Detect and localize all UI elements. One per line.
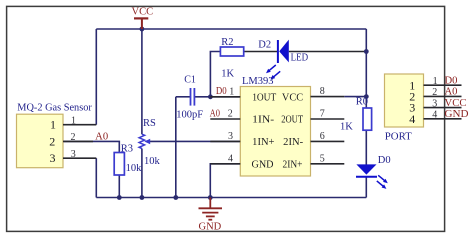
svg-text:2: 2 (432, 87, 437, 98)
op-amp pin 5 (311, 154, 345, 165)
svg-text:3: 3 (71, 149, 76, 160)
svg-text:LED: LED (291, 52, 309, 63)
node junction R2 branch on 1OUT wire (208, 94, 213, 99)
resistor R0 (340, 97, 372, 133)
svg-text:2OUT: 2OUT (281, 115, 303, 126)
LED D0 (356, 155, 391, 189)
node junction pot on ground rail (140, 195, 145, 200)
wire R2 to D2 (244, 51, 278, 53)
svg-text:10k: 10k (144, 156, 161, 167)
svg-text:VCC: VCC (132, 7, 154, 18)
svg-text:2: 2 (228, 109, 233, 120)
svg-text:1OUT: 1OUT (252, 92, 277, 103)
op-amp pin 1 (210, 86, 240, 97)
svg-text:8: 8 (320, 86, 325, 97)
svg-text:D0: D0 (378, 155, 391, 166)
wire sensor pin3 drop (95, 158, 97, 197)
svg-text:4: 4 (228, 154, 233, 165)
resistor R3 (114, 143, 142, 175)
wire D2 to right vertical (289, 51, 367, 53)
svg-text:1K: 1K (221, 69, 234, 80)
svg-text:PORT: PORT (385, 132, 413, 143)
svg-text:4: 4 (409, 112, 415, 126)
svg-text:LM393: LM393 (242, 76, 274, 87)
svg-text:1K: 1K (340, 122, 353, 133)
connector pin 1 (424, 76, 462, 87)
wire VCC/pot riser (141, 29, 143, 134)
node junction pin8/R0 (364, 94, 369, 99)
svg-text:3: 3 (50, 151, 56, 165)
svg-text:GND: GND (445, 109, 469, 120)
svg-text:D2: D2 (258, 39, 271, 50)
sensor pin 3 (63, 149, 96, 160)
svg-text:6: 6 (320, 131, 325, 142)
wire LED D0 to bottom rail (365, 177, 367, 198)
wire pot bottom lead (141, 149, 143, 198)
svg-text:D0: D0 (445, 76, 458, 87)
svg-text:2IN+: 2IN+ (283, 160, 303, 171)
svg-text:A0: A0 (445, 87, 458, 98)
potentiometer RS (139, 118, 160, 167)
node junction R3 on ground rail (117, 195, 122, 200)
node junction C1 branch on ground rail (173, 195, 178, 200)
op-amp pin 6 (311, 131, 345, 142)
wire R2 branch riser (210, 52, 220, 97)
svg-text:VCC: VCC (445, 98, 467, 109)
svg-text:10k: 10k (126, 163, 143, 174)
wire C1 ground branch (175, 97, 177, 198)
svg-text:D0: D0 (216, 86, 227, 97)
svg-text:4: 4 (432, 110, 437, 121)
op-amp pin 3 (210, 131, 240, 142)
svg-text:R0: R0 (356, 97, 368, 108)
svg-text:3: 3 (228, 131, 233, 142)
wire VCC top rail (96, 28, 366, 30)
wire bottom ground rail (96, 197, 366, 199)
sensor pin 2 (63, 132, 93, 143)
svg-text:7: 7 (320, 109, 325, 120)
wire left riser to sensor pin1 (95, 29, 97, 125)
svg-text:C1: C1 (184, 75, 196, 86)
sensor pin 1 (63, 115, 96, 126)
wire C1 left lead (176, 96, 190, 98)
svg-text:2: 2 (49, 134, 55, 148)
connector PORT body (385, 74, 424, 143)
ground symbol GND (199, 198, 223, 233)
connector pin 4 (424, 110, 462, 121)
resistor R2 (220, 37, 243, 80)
node junction GND tap on ground rail (208, 195, 213, 200)
wire pot wiper to 1IN+ (149, 140, 240, 142)
svg-text:1IN+: 1IN+ (252, 137, 274, 148)
connector pin 2 (424, 87, 462, 98)
svg-text:GND: GND (252, 160, 274, 171)
node junction D2 on right vertical (364, 49, 369, 54)
op-amp pin 4 (210, 154, 240, 165)
wire C1 right to 1OUT (195, 96, 241, 98)
svg-text:1: 1 (433, 76, 438, 87)
wire A0 corner into R3 (63, 141, 119, 152)
svg-text:VCC: VCC (282, 92, 303, 103)
capacitor C1 (176, 75, 203, 121)
svg-text:A0: A0 (95, 131, 108, 142)
wire pin8 to right vertical (344, 96, 366, 98)
svg-text:RS: RS (143, 118, 156, 129)
node junction VCC on top rail (140, 27, 145, 32)
wire R3 bottom lead (118, 175, 120, 198)
op-amp pin 8 (311, 86, 345, 97)
sensor MQ-2 body (17, 103, 93, 168)
svg-text:1IN-: 1IN- (252, 115, 274, 126)
svg-text:100pF: 100pF (176, 109, 203, 120)
LED D2 (258, 39, 308, 79)
op-amp pin 7 (311, 109, 345, 120)
connector pin 3 (424, 98, 462, 109)
svg-text:1: 1 (50, 118, 56, 132)
wire right vertical VCC drop (365, 29, 367, 108)
svg-text:5: 5 (320, 154, 325, 165)
svg-text:1: 1 (71, 115, 76, 126)
svg-text:GND: GND (199, 221, 222, 232)
svg-text:A0: A0 (210, 108, 220, 119)
svg-text:R2: R2 (221, 37, 233, 48)
svg-text:2: 2 (71, 132, 76, 143)
op-amp pin 2 (210, 109, 240, 120)
op-amp U1 LM393 body (240, 76, 310, 176)
wire LM393 pin4 to ground (210, 164, 240, 198)
svg-text:2IN-: 2IN- (283, 137, 303, 148)
svg-text:R3: R3 (121, 143, 133, 154)
svg-text:3: 3 (432, 98, 437, 109)
power symbol VCC (132, 7, 154, 29)
wire R0 to LED D0 (365, 130, 367, 165)
svg-text:MQ-2 Gas Sensor: MQ-2 Gas Sensor (17, 103, 92, 114)
svg-text:1: 1 (229, 86, 234, 97)
